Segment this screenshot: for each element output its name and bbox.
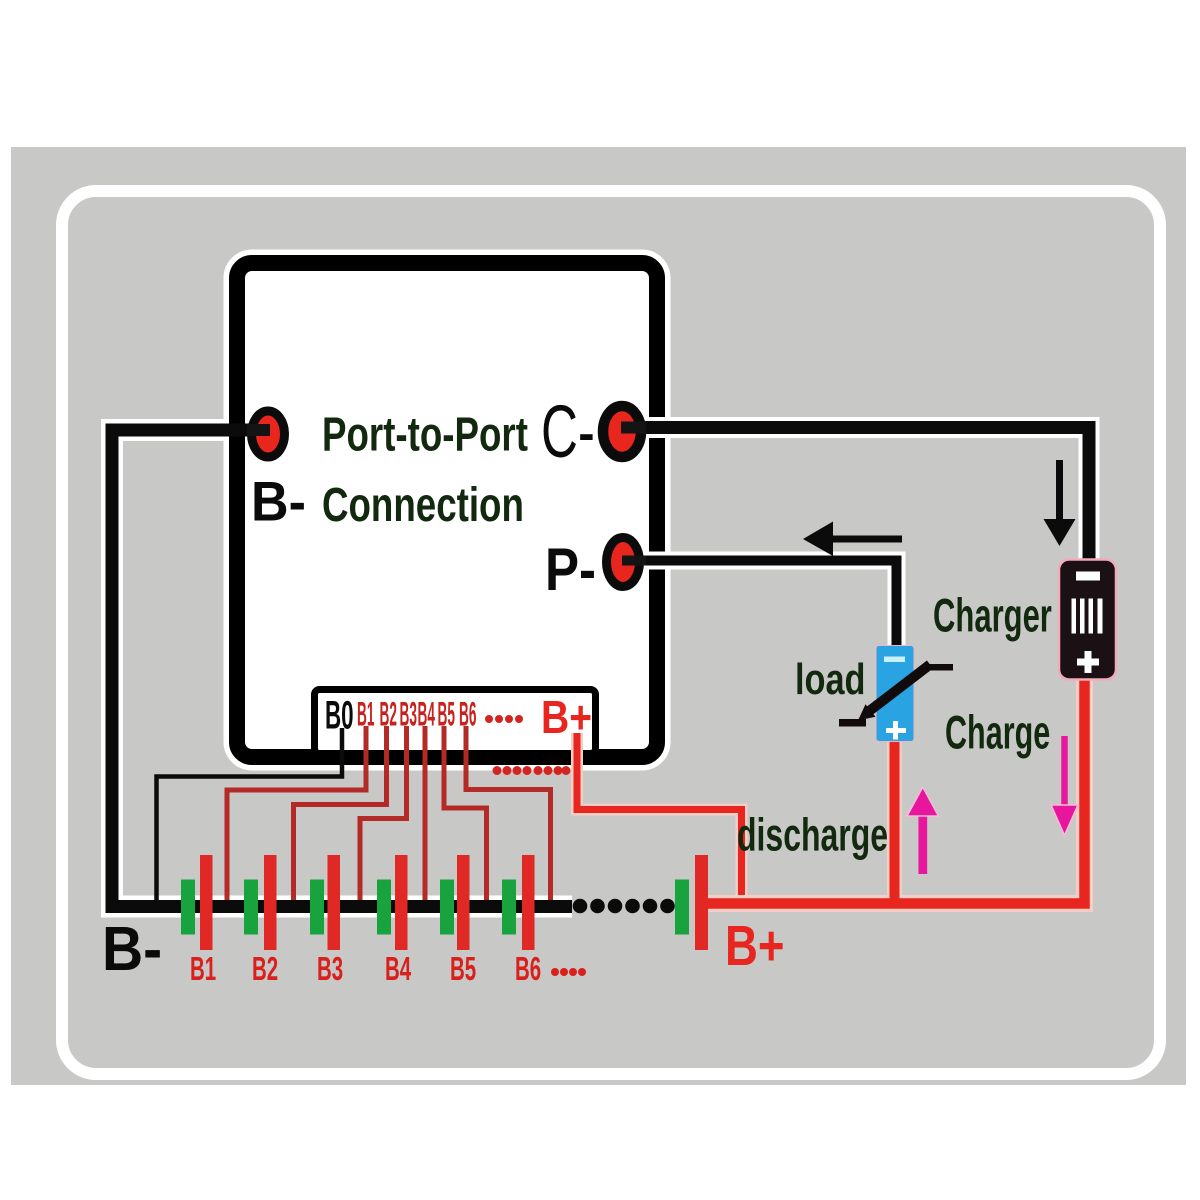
battery cell 2 negative plate (244, 880, 258, 935)
battery cell 1 negative plate (181, 880, 195, 935)
svg-text:B4: B4 (418, 697, 436, 734)
battery cell 3 negative plate (310, 880, 324, 935)
BMS module box U1 (white halo) (237, 263, 657, 757)
label B2 pin (380, 697, 397, 734)
svg-text:B6: B6 (459, 697, 476, 734)
svg-text:B3: B3 (317, 950, 343, 987)
arrow discharge (magenta up) (918, 812, 927, 874)
svg-text:B2: B2 (380, 697, 397, 734)
pad C- terminal (603, 406, 641, 457)
svg-text:discharge: discharge (737, 810, 888, 861)
dots after B6 pin (485, 715, 523, 723)
wire B0 (157, 728, 343, 900)
svg-text:B1: B1 (190, 950, 216, 987)
charger component (1059, 560, 1116, 680)
label B4 cell (385, 950, 412, 987)
load plus mark (886, 728, 906, 733)
label B6 pin (459, 697, 476, 734)
svg-text:Charge: Charge (945, 707, 1050, 759)
svg-text:Port-to-Port: Port-to-Port (322, 408, 528, 462)
label B1 cell (190, 950, 216, 987)
battery cell 4 positive plate (395, 855, 408, 950)
wire B- (white halo) (112, 430, 572, 907)
battery cell 5 negative plate (440, 880, 454, 935)
wire B3 balance (360, 726, 407, 900)
svg-text:B0: B0 (325, 693, 354, 737)
label B+ battery (725, 913, 785, 977)
gray panel background (11, 147, 1186, 1085)
battery cell 3 positive plate (328, 855, 341, 950)
svg-text:Connection: Connection (322, 478, 524, 532)
label Connection (322, 478, 524, 532)
svg-text:B5: B5 (450, 950, 476, 987)
svg-text:B-: B- (102, 914, 162, 984)
label P- pad (545, 536, 596, 603)
svg-text:B+: B+ (541, 692, 592, 744)
wire B1 balance (227, 726, 366, 900)
label B2 cell (252, 950, 278, 987)
svg-text:C-: C- (541, 391, 595, 474)
balance connector J1 (315, 690, 596, 754)
wire B+ from connector (577, 733, 742, 898)
svg-text:B-: B- (251, 471, 306, 533)
label B6 cell (515, 950, 541, 987)
label B5 cell (450, 950, 476, 987)
label B3 pin (400, 697, 417, 734)
label B- battery (102, 914, 162, 984)
svg-text:Charger: Charger (933, 590, 1052, 642)
arrow charge (magenta down) (1061, 736, 1068, 806)
battery cell N negative plate (675, 880, 689, 935)
dots below connector (493, 766, 571, 775)
wire stub over pad B- (247, 424, 270, 436)
battery cell 6 negative plate (502, 880, 516, 935)
label B4 pin (418, 697, 436, 734)
label C- pad (541, 391, 595, 474)
battery cell 2 positive plate (264, 855, 277, 950)
wire stub over pad P- (622, 556, 646, 566)
BMS module box U1 (237, 263, 657, 757)
wire stub over pad C- (621, 422, 646, 434)
label B0 pin (325, 693, 354, 737)
wire P- to load (white halo) (623, 561, 897, 649)
label B5 pin (438, 697, 455, 734)
label B+ pin (541, 692, 592, 744)
label B- pad (251, 471, 306, 533)
battery cell 4 negative plate (377, 880, 391, 935)
label B1 pin (357, 697, 374, 734)
white rounded frame line (62, 191, 1160, 1074)
wire B- pad to battery negative bus (112, 430, 572, 907)
ellipsis dots battery string (573, 899, 675, 914)
wire load to bus (halo) (887, 742, 902, 898)
battery cell 6 positive plate (522, 855, 535, 950)
charger minus mark (1076, 572, 1100, 581)
charger plus mark (1077, 659, 1099, 666)
battery cell 1 positive plate (200, 855, 213, 950)
pad P- terminal (607, 538, 640, 587)
switch SW1 blade (839, 719, 866, 727)
load minus mark (884, 657, 905, 663)
svg-text:B5: B5 (438, 697, 455, 734)
label discharge (737, 810, 888, 861)
label Charger (933, 590, 1052, 642)
dots after B6 cell (551, 968, 586, 976)
arrow discharge direction (left) (832, 536, 902, 543)
wire B+ from connector (halo) (577, 733, 742, 898)
svg-text:B4: B4 (385, 950, 412, 987)
svg-text:B6: B6 (515, 950, 541, 987)
arrow charge direction (down) (1056, 460, 1063, 521)
svg-text:load: load (795, 655, 866, 704)
wire C- to charger (white halo) (622, 428, 1089, 561)
wire B6 balance (466, 726, 551, 900)
label Charge (945, 707, 1050, 759)
label load (795, 655, 866, 704)
label B3 cell (317, 950, 343, 987)
wire P- to load (623, 561, 897, 649)
wire C- to charger (622, 428, 1089, 561)
wire B2 balance (294, 726, 387, 900)
svg-text:B+: B+ (725, 913, 785, 977)
wire B4 balance (423, 726, 428, 900)
pad B- terminal (252, 411, 285, 457)
wire B5 balance (444, 726, 487, 900)
red bus B+ with charger branch (halo) (703, 680, 1085, 904)
red bus B+ with charger branch (703, 680, 1085, 904)
battery cell 5 positive plate (457, 855, 470, 950)
load component (876, 646, 914, 742)
battery cell N positive plate B+ terminal (695, 855, 708, 950)
svg-text:B2: B2 (252, 950, 278, 987)
wire load to bus (890, 742, 900, 901)
svg-text:B1: B1 (357, 697, 374, 734)
label Port-to-Port (322, 408, 528, 462)
charger vent bars (1072, 599, 1077, 634)
svg-text:B3: B3 (400, 697, 417, 734)
svg-text:P-: P- (545, 536, 596, 603)
